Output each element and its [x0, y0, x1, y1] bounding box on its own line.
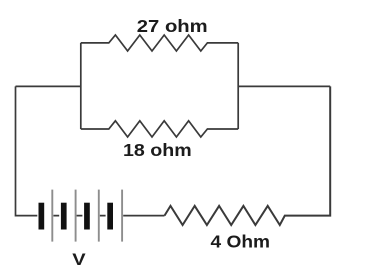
- svg-text:27 ohm: 27 ohm: [137, 16, 208, 36]
- svg-text:4 Ohm: 4 Ohm: [211, 232, 271, 252]
- svg-text:V: V: [72, 251, 85, 269]
- svg-text:18 ohm: 18 ohm: [123, 140, 192, 160]
